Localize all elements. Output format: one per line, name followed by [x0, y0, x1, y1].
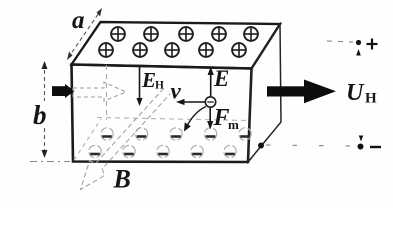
positive terminal dot	[356, 40, 361, 45]
negative terminal wire	[266, 145, 354, 146]
box front face	[72, 65, 252, 163]
svg-text:E: E	[141, 68, 156, 92]
dimension a line	[68, 10, 101, 58]
positive probe arrow	[356, 49, 361, 56]
svg-text:U: U	[346, 80, 365, 106]
electron	[205, 97, 215, 107]
field E arrow	[210, 70, 212, 96]
svg-text:m: m	[228, 117, 239, 132]
negative terminal contact dot	[258, 143, 264, 149]
box right face	[248, 24, 281, 162]
hidden back-bottom edge	[97, 118, 250, 121]
minus charges on bottom face	[89, 128, 251, 158]
output arrow U_H	[267, 80, 336, 104]
negative terminal dot	[358, 144, 364, 150]
hidden bottom-left receding edge	[74, 119, 101, 160]
bottom extension line	[30, 161, 70, 163]
minus sign	[370, 146, 381, 148]
magnetic field B arrow	[81, 88, 171, 189]
svg-text:b: b	[33, 100, 47, 130]
force F_m arrow	[209, 108, 211, 125]
svg-text:E: E	[213, 66, 229, 91]
box top face	[72, 22, 281, 69]
negative probe arrow	[359, 136, 363, 142]
dimension b line	[44, 63, 46, 101]
hidden back-left edge	[106, 65, 108, 120]
positive terminal wire	[327, 41, 353, 42]
svg-text:a: a	[72, 7, 85, 34]
plus charges on top face	[98, 26, 258, 57]
current input arrow	[52, 84, 75, 98]
svg-text:F: F	[213, 105, 230, 131]
svg-text:B: B	[113, 165, 131, 194]
velocity v arrow	[180, 101, 205, 103]
plus sign	[367, 39, 378, 50]
svg-text:H: H	[365, 91, 377, 107]
svg-text:v: v	[171, 79, 182, 104]
field E_H arrow	[139, 67, 141, 101]
electron trajectory curve	[188, 107, 207, 126]
current direction hollow arrow	[73, 82, 126, 101]
